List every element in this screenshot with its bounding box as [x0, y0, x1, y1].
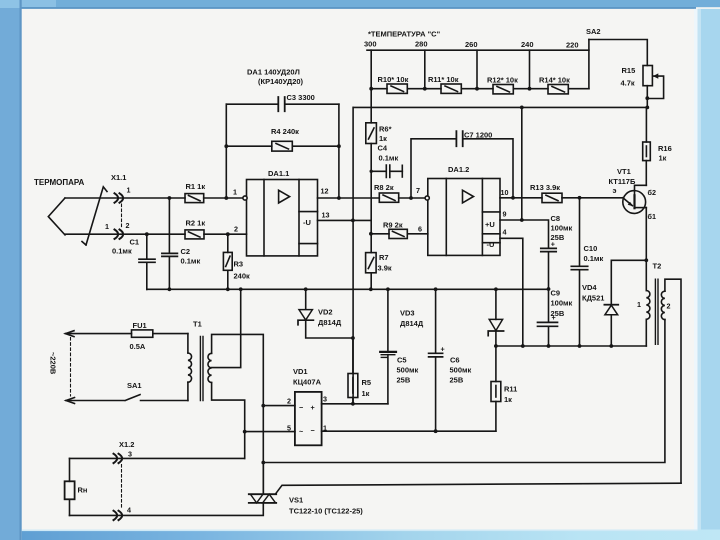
junction dot VD2 rail — [304, 287, 308, 291]
resistor R11 — [428, 75, 461, 93]
svg-text:−: − — [311, 426, 315, 435]
wire: SA2 tick 260 — [476, 50, 478, 88]
pin 4 of DA1.2 — [503, 228, 507, 237]
svg-text:1к: 1к — [362, 389, 370, 398]
svg-text:260: 260 — [465, 40, 478, 49]
svg-text:100мк: 100мк — [551, 224, 573, 233]
junction dot pin4 on minus rail — [521, 344, 525, 348]
svg-text:−: − — [299, 403, 303, 412]
junction dot C4 tap — [370, 170, 373, 173]
junction dot chain-260 — [475, 87, 479, 91]
node: ТЕРМОПАРА label — [34, 178, 85, 187]
junction dot C10 bottom — [578, 344, 582, 348]
capacitor C6 — [429, 289, 472, 431]
svg-text:С1: С1 — [130, 238, 140, 247]
wire: pin9 to C8 — [500, 220, 549, 248]
wire: V2 vertical (300-tick line) — [370, 50, 372, 289]
wire: VD1 pin1 minus wire — [322, 430, 496, 432]
junction dot chain-240 — [528, 87, 532, 91]
wire: SA2 selector bar — [367, 49, 589, 51]
transformer T2 — [637, 262, 671, 347]
wire: SA2 tick 280 — [424, 50, 426, 88]
junction dot emitter node — [578, 196, 582, 200]
svg-text:2: 2 — [126, 221, 130, 230]
svg-text:1: 1 — [127, 186, 131, 195]
wire: V1 vertical (rail left end down) — [352, 107, 354, 403]
svg-text:R6*: R6* — [379, 125, 392, 134]
wire: pin1 to R1 — [65, 197, 185, 199]
resistor R5 — [348, 338, 371, 404]
wire: VD1 pin3 plus rail — [322, 403, 388, 405]
wire: C3/R4 right leg — [338, 104, 340, 198]
wire: ground rail — [147, 288, 549, 290]
junction dot R4 left — [224, 144, 228, 148]
resistor R14 — [539, 76, 570, 94]
wire: R15 wiper loop — [647, 73, 663, 98]
connector X1.2 — [114, 440, 135, 520]
svg-text:Т1: Т1 — [193, 320, 202, 329]
svg-text:КТ117Б: КТ117Б — [609, 177, 636, 186]
svg-text:С9: С9 — [551, 289, 561, 298]
svg-text:0.1мк: 0.1мк — [379, 154, 399, 163]
wire: T1 secondary bottom to VD1 pin5 — [212, 383, 245, 459]
node: ~220V arrows — [49, 331, 75, 404]
junction dot pin13/V1 — [351, 219, 355, 223]
svg-text:DA1.2: DA1.2 — [448, 165, 469, 174]
junction dot R5 bottom — [351, 402, 355, 406]
wire: VD1 pin5 — [245, 431, 295, 433]
svg-text:КЦ407А: КЦ407А — [293, 378, 322, 387]
wire: pin12 output — [318, 197, 380, 199]
wire: X1.2 pin3 wire — [70, 457, 245, 459]
junction dot R7 bottom — [369, 287, 373, 291]
svg-text:1: 1 — [637, 300, 641, 309]
svg-text:240: 240 — [521, 40, 534, 49]
thermocouple symbol — [48, 187, 107, 245]
resistor R8 — [374, 183, 399, 202]
resistor R12 — [487, 76, 518, 94]
svg-text:VS1: VS1 — [289, 496, 303, 505]
svg-text:R15: R15 — [622, 66, 636, 75]
svg-text:Д814Д: Д814Д — [400, 319, 424, 328]
svg-text:500мк: 500мк — [450, 366, 472, 375]
wire: SA2 tick 240 — [529, 50, 531, 88]
resistor chain wire R10-R14 — [371, 88, 589, 90]
wire: minus rail — [496, 345, 646, 347]
wire: VS1 gate line — [276, 483, 681, 494]
svg-text:9: 9 — [503, 210, 507, 219]
svg-text:С10: С10 — [584, 244, 598, 253]
svg-text:0.1мк: 0.1мк — [112, 247, 132, 256]
wire: X1.1 dashed mate line — [121, 204, 123, 228]
junction dot R3 bottom — [226, 287, 230, 291]
junction dot b1/VD4 — [644, 258, 648, 262]
svg-text:2: 2 — [234, 225, 238, 234]
capacitor C8 — [541, 214, 573, 289]
svg-text:Д814Д: Д814Д — [318, 318, 342, 327]
svg-text:R11* 10к: R11* 10к — [428, 75, 459, 84]
svg-text:*ТЕМПЕРАТУРА "С": *ТЕМПЕРАТУРА "С" — [368, 30, 441, 39]
resistor R3 — [223, 234, 250, 289]
zener VD2 — [298, 289, 353, 338]
junction dot C3 left at pin1 — [224, 196, 228, 200]
svg-text:Rн: Rн — [78, 486, 88, 495]
resistor R7 — [366, 253, 392, 273]
svg-text:1к: 1к — [504, 395, 512, 404]
svg-text:С7 1200: С7 1200 — [464, 131, 492, 140]
svg-text:SA2: SA2 — [586, 27, 601, 36]
svg-text:100мк: 100мк — [551, 299, 573, 308]
svg-text:6: 6 — [418, 225, 422, 234]
transformer T1 — [188, 320, 212, 401]
svg-text:+: + — [441, 345, 445, 354]
capacitor C7 — [411, 131, 513, 197]
svg-text:4.7к: 4.7к — [621, 79, 635, 88]
wire: VD1 pin2 — [263, 405, 295, 407]
junction dot R3 top — [226, 232, 230, 236]
wire: SA2 tick 220 / right end down to chain — [588, 40, 590, 89]
svg-text:VD2: VD2 — [318, 308, 333, 317]
connector X1.1 label — [111, 173, 126, 182]
svg-text:2: 2 — [667, 302, 671, 311]
capacitor C2 — [162, 198, 201, 289]
svg-text:КД521: КД521 — [582, 294, 604, 303]
svg-text:~: ~ — [299, 427, 303, 436]
junction dot C9 bottom — [547, 344, 551, 348]
wire: T1 secondary top to VD1 pin2 — [212, 334, 264, 493]
svg-text:13: 13 — [322, 211, 330, 220]
svg-text:10: 10 — [501, 188, 509, 197]
svg-text:R5: R5 — [362, 378, 372, 387]
transistor VT1 — [609, 167, 656, 221]
pin 13 of DA1.1 — [322, 211, 330, 220]
resistor R11 — [491, 346, 517, 431]
wire: T2 secondary top to gate line — [665, 279, 681, 483]
svg-text:0.1мк: 0.1мк — [181, 257, 201, 266]
wire: pin13 to supply column — [318, 219, 371, 221]
wire: VD4 top wire — [611, 260, 646, 303]
resistor R16 — [643, 107, 672, 162]
junction dot C6 top — [434, 287, 438, 291]
svg-text:(КР140УД20): (КР140УД20) — [258, 77, 304, 86]
wire: R1 to DA1.1 pin1 — [204, 197, 243, 199]
svg-text:R2 1к: R2 1к — [186, 219, 206, 228]
junction dot VD4 bottom — [609, 344, 613, 348]
junction dot VD3 bottom — [494, 344, 498, 348]
svg-text:R14* 10к: R14* 10к — [539, 76, 570, 85]
capacitor C5 — [380, 289, 418, 404]
svg-text:э: э — [613, 186, 617, 195]
wire: SA2 top wire to R15 — [589, 40, 647, 66]
svg-text:7: 7 — [416, 186, 420, 195]
svg-text:FU1: FU1 — [133, 321, 147, 330]
rectifier VD1 — [287, 367, 327, 445]
junction dot C1 top — [145, 232, 149, 236]
wire: R8 to pin7 — [399, 197, 425, 199]
node: scale value 300 — [364, 40, 377, 49]
svg-text:VT1: VT1 — [617, 167, 631, 176]
svg-text:3: 3 — [128, 450, 132, 459]
svg-text:25В: 25В — [551, 309, 565, 318]
potentiometer R15 — [621, 66, 653, 88]
triac VS1 — [249, 463, 363, 516]
svg-text:280: 280 — [415, 40, 428, 49]
wire: R13 to VT1 emitter — [562, 197, 623, 199]
svg-text:-U: -U — [487, 240, 495, 249]
svg-text:ТС122-10 (ТС122-25): ТС122-10 (ТС122-25) — [289, 507, 363, 516]
wire: T1 center tap to ground rail — [212, 289, 241, 367]
wire: X1.2 pin4 wire to VS1 — [70, 504, 264, 515]
junction dot C2 bottom — [168, 287, 172, 291]
svg-text:R3: R3 — [234, 260, 244, 269]
svg-text:DA1 140УД20Л: DA1 140УД20Л — [247, 68, 300, 77]
junction dot rail drop at pin9 — [520, 218, 524, 222]
wire: R2 to DA1.1 pin2 — [204, 233, 247, 235]
svg-text:3: 3 — [323, 395, 327, 404]
pin 7 circle of DA1.2 — [416, 186, 429, 200]
svg-text:С5: С5 — [397, 356, 407, 365]
svg-text:R1 1к: R1 1к — [186, 182, 206, 191]
junction dot C3 right at pin12 — [337, 196, 341, 200]
svg-text:25В: 25В — [450, 376, 464, 385]
pin 2 of X1.1 — [105, 221, 130, 239]
wire: pin10 output to R13 — [500, 197, 542, 199]
svg-text:VD1: VD1 — [293, 367, 308, 376]
switch SA1 — [66, 381, 188, 401]
svg-text:1к: 1к — [659, 154, 667, 163]
svg-text:VD4: VD4 — [582, 283, 597, 292]
resistor R6 — [366, 123, 392, 144]
svg-text:1: 1 — [233, 188, 237, 197]
svg-text:С4: С4 — [378, 144, 388, 153]
svg-text:240к: 240к — [234, 272, 251, 281]
resistor R10 — [378, 75, 409, 93]
op-amp DA1.1 — [247, 169, 318, 256]
svg-text:DA1.1: DA1.1 — [268, 169, 289, 178]
svg-text:-U: -U — [303, 218, 311, 227]
svg-text:R7: R7 — [379, 253, 389, 262]
junction dot R15 wiper — [645, 96, 649, 100]
junction dot VD3 top — [494, 287, 498, 291]
pin 1 circle of DA1.1 — [233, 188, 247, 201]
resistor R1 — [185, 182, 205, 203]
svg-text:б1: б1 — [648, 212, 656, 221]
svg-text:12: 12 — [321, 187, 329, 196]
svg-text:+: + — [311, 403, 315, 412]
resistor R4 — [226, 127, 339, 151]
junction dot pin5 — [243, 430, 247, 434]
svg-text:R9 2к: R9 2к — [383, 221, 403, 230]
svg-text:1к: 1к — [379, 134, 387, 143]
svg-text:С3 3300: С3 3300 — [287, 93, 315, 102]
svg-text:2: 2 — [287, 397, 291, 406]
svg-text:500мк: 500мк — [397, 366, 419, 375]
svg-text:R4 240к: R4 240к — [271, 127, 299, 136]
zener VD3 — [400, 289, 504, 346]
svg-text:SA1: SA1 — [127, 381, 142, 390]
node: temperature scale label — [368, 30, 441, 39]
junction dot C5 top — [386, 287, 390, 291]
node: scale value 240 — [521, 40, 534, 49]
svg-text:3.9к: 3.9к — [378, 264, 392, 273]
junction dot C8/C9 ground — [547, 287, 551, 291]
capacitor C10 — [571, 198, 603, 346]
svg-text:25В: 25В — [551, 233, 565, 242]
junction dot VS1 top — [261, 461, 265, 465]
svg-text:R16: R16 — [658, 144, 672, 153]
pin 10 of DA1.2 — [501, 188, 509, 197]
wire: +U rail y107 — [353, 106, 647, 108]
wire: pin2 to R2 — [65, 233, 185, 235]
svg-text:25В: 25В — [397, 376, 411, 385]
capacitor C9 — [538, 289, 573, 347]
svg-text:0.5А: 0.5А — [130, 342, 146, 351]
svg-text:Т2: Т2 — [653, 262, 662, 271]
junction dot chain-280 — [423, 87, 427, 91]
junction dot tap on rail — [239, 287, 243, 291]
diode VD4 — [582, 283, 618, 346]
svg-text:С8: С8 — [551, 214, 561, 223]
svg-text:R11: R11 — [504, 385, 517, 394]
svg-text:R13 3.9к: R13 3.9к — [530, 183, 560, 192]
wire: T2 secondary bottom to VS1 top — [263, 320, 665, 463]
svg-text:+U: +U — [485, 220, 495, 229]
capacitor C3 — [226, 93, 339, 111]
svg-text:R8 2к: R8 2к — [374, 183, 394, 192]
junction dot R4 right — [337, 144, 341, 148]
svg-text:~220В: ~220В — [49, 352, 58, 375]
svg-text:4: 4 — [127, 506, 131, 515]
pin 1 of X1.1 — [115, 186, 131, 203]
svg-text:X1.2: X1.2 — [119, 440, 134, 449]
capacitor C4 — [371, 144, 402, 178]
node: scale value 220 — [566, 41, 579, 50]
svg-text:1: 1 — [105, 222, 109, 231]
wire: b2 up to R16 — [645, 161, 647, 186]
svg-text:0.1мк: 0.1мк — [584, 254, 604, 263]
capacitor C1 — [112, 234, 155, 289]
wire: pin4 down to minus rail — [500, 238, 523, 346]
pin 12 of DA1.1 — [321, 187, 329, 196]
junction dot C6 bottom — [434, 429, 438, 433]
junction dot chain-300 — [369, 87, 373, 91]
svg-text:С6: С6 — [450, 356, 460, 365]
svg-text:4: 4 — [503, 228, 507, 237]
wire: b1 down to T2 — [645, 208, 647, 291]
wire: R15 bottom to rail — [646, 86, 648, 108]
pin 6 of DA1.2 — [418, 225, 422, 234]
junction dot C2 top — [168, 196, 172, 200]
svg-text:R12* 10к: R12* 10к — [487, 76, 518, 85]
op-amp DA1 label — [247, 68, 304, 87]
junction dot R15 rail — [645, 106, 649, 110]
resistor R9 — [371, 221, 428, 239]
svg-text:R10* 10к: R10* 10к — [378, 75, 409, 84]
node: scale value 280 — [415, 40, 428, 49]
junction dot VD2/R5 — [351, 336, 355, 340]
svg-text:X1.1: X1.1 — [111, 173, 126, 182]
wire: rail drop to pin9 (+U) — [521, 107, 523, 220]
svg-text:ТЕРМОПАРА: ТЕРМОПАРА — [34, 178, 85, 187]
svg-text:VD3: VD3 — [400, 309, 415, 318]
svg-text:220: 220 — [566, 41, 579, 50]
junction dot C7 right leg — [511, 196, 515, 200]
resistor Rn load — [65, 458, 88, 515]
pin 9 of DA1.2 — [503, 210, 507, 219]
junction dot C7 left leg — [409, 196, 413, 200]
resistor R2 — [185, 219, 205, 239]
op-amp DA1.2 — [428, 165, 500, 255]
svg-text:б2: б2 — [648, 188, 656, 197]
svg-text:С2: С2 — [181, 247, 191, 256]
switch SA2 label — [586, 27, 601, 36]
junction dot rail drop top — [520, 106, 524, 110]
junction dot pin2 — [261, 404, 265, 408]
fuse FU1 — [66, 321, 188, 351]
svg-text:300: 300 — [364, 40, 377, 49]
wire: C3/R4 left leg — [225, 104, 227, 198]
junction dot R9 left — [369, 232, 373, 236]
node: scale value 260 — [465, 40, 478, 49]
resistor R13 — [530, 183, 562, 203]
pin 2 of DA1.1 — [234, 225, 238, 234]
